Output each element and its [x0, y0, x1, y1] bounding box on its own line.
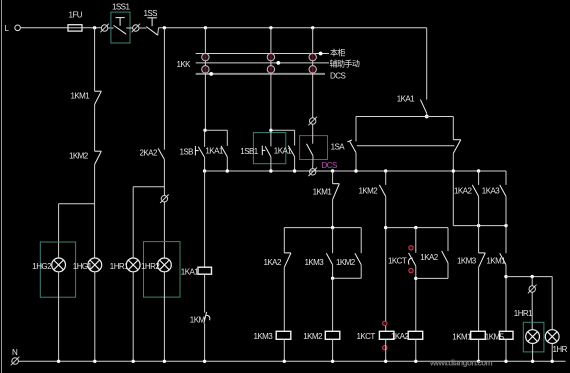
- contact 1KM3 (NO): [332, 228, 334, 254]
- wire 1HG1 to N bus: [94, 272, 96, 362]
- svg-text:1SA: 1SA: [331, 142, 346, 151]
- coil 1KA1: [198, 267, 212, 274]
- lamp 1HG1: [88, 258, 102, 272]
- wire bar A: [284, 227, 361, 229]
- wire terminal to 1HR2: [163, 202, 165, 258]
- contact 1KM2 (NO under bus): [385, 171, 387, 185]
- wire 1KK column1: [204, 28, 206, 131]
- wire to 1KM2 coil: [332, 278, 334, 331]
- wire 1KM to N bus: [204, 323, 206, 361]
- wire join bar: [416, 277, 448, 279]
- svg-text:1HR: 1HR: [553, 345, 568, 354]
- svg-text:1KM1: 1KM1: [452, 333, 472, 342]
- pushbutton 1SS (NO): [147, 17, 157, 19]
- contact 1KM2 (NO parallel): [360, 228, 362, 254]
- node col1 top: [203, 129, 206, 132]
- terminal X3: [161, 196, 167, 202]
- wire N bus: [18, 360, 565, 362]
- terminal X1: [101, 25, 107, 31]
- 1KK contact circles row2: [202, 66, 317, 73]
- node barC right: [504, 224, 507, 227]
- svg-text:1KK: 1KK: [177, 60, 192, 69]
- 1KK contact circles row1: [202, 53, 317, 60]
- svg-text:1KA1: 1KA1: [274, 147, 292, 156]
- wire 1HR to N bus: [551, 344, 553, 362]
- coil 1KCT: [379, 331, 394, 339]
- left scan border line: [1, 0, 3, 373]
- wire branch to 1HG2: [59, 203, 95, 205]
- node marker line3: [209, 72, 213, 76]
- svg-text:1KA1: 1KA1: [205, 147, 223, 156]
- svg-text:1HR1: 1HR1: [514, 309, 533, 318]
- terminal X4: [529, 286, 535, 292]
- wire bar C: [453, 225, 506, 227]
- wire 1SB1 branch top bar: [271, 129, 295, 131]
- svg-text:1KM2: 1KM2: [336, 258, 356, 267]
- red mark above 1KCT coil: [383, 321, 387, 325]
- fuse 1FU: [68, 25, 82, 31]
- lamp 1HR: [545, 330, 559, 344]
- node bus-1KA1 seal2: [293, 169, 296, 172]
- svg-text:1HR2: 1HR2: [141, 262, 160, 271]
- wire 1HG2 to N bus: [58, 272, 60, 362]
- wire lamp feed: [506, 276, 552, 278]
- node barB left: [384, 226, 387, 229]
- node bus-1SA: [354, 169, 357, 172]
- wire 1KK column3: [312, 28, 314, 118]
- node bus-1KM1nc: [331, 169, 334, 172]
- wire terminal to 1SS: [139, 27, 146, 29]
- wire 1KK column2: [270, 28, 272, 131]
- contact 1KM1 (NO lower right): [505, 226, 507, 254]
- contact 1KA2 (NO seal): [447, 228, 449, 251]
- lamp 1HR1 (teal frame): [523, 322, 544, 352]
- contact 1KM1 (NC mid): [332, 171, 334, 184]
- wire 1KM1 to 1KM2: [94, 105, 96, 152]
- red mark below 1KCT contact: [409, 268, 413, 272]
- svg-text:1KM2: 1KM2: [69, 151, 89, 160]
- node rail-1KK col2: [269, 26, 272, 29]
- node lamp feed: [504, 275, 507, 278]
- contact 1KA2 (NO right): [478, 171, 480, 185]
- node rail-1KK col3: [311, 26, 314, 29]
- svg-text:1HG1: 1HG1: [73, 262, 93, 271]
- node L terminal: [15, 25, 21, 31]
- terminal X2: [133, 25, 139, 31]
- svg-text:1KA3: 1KA3: [482, 187, 500, 196]
- terminal above DCS contact: [310, 118, 316, 124]
- svg-text:本柜: 本柜: [330, 48, 345, 58]
- wire column 2KA2 down from rail: [163, 28, 165, 150]
- svg-text:1KM1: 1KM1: [486, 257, 506, 266]
- node rail-2KA2 column: [163, 26, 166, 29]
- coil 1KM1: [471, 331, 486, 339]
- wire 1HR2 to N bus: [163, 272, 165, 362]
- node rail-1KK col1: [204, 26, 207, 29]
- node barA center: [331, 226, 334, 229]
- node bus-1SB1: [269, 169, 272, 172]
- wire 1SB branch top bar: [205, 129, 228, 131]
- node bus-1KM2: [384, 169, 387, 172]
- svg-text:辅助手动: 辅助手动: [330, 59, 360, 69]
- contact 1KA2 (NC): [283, 228, 285, 253]
- red mark above 1KCT contact: [409, 246, 413, 250]
- svg-text:1SB: 1SB: [180, 147, 194, 156]
- wire to terminal: [531, 277, 533, 286]
- svg-text:DCS: DCS: [322, 161, 337, 170]
- terminal on bus below DCS: [310, 169, 316, 175]
- node barB-1KCT: [414, 226, 417, 229]
- lamp 1HR1: [126, 258, 140, 272]
- node barC-1KM3: [477, 224, 480, 227]
- svg-text:2KA2: 2KA2: [140, 148, 158, 157]
- wire 1HR1 to N bus: [132, 272, 134, 362]
- wire fuse to terminal: [82, 27, 101, 29]
- contact 1KCT (delayed): [415, 228, 417, 253]
- lamp 1HG2 (teal frame): [40, 242, 75, 297]
- svg-text:1HG2: 1HG2: [32, 262, 52, 271]
- svg-text:DCS: DCS: [330, 72, 345, 81]
- node N terminal: [12, 358, 19, 365]
- svg-text:1KM3: 1KM3: [305, 258, 325, 267]
- wire column 1KM down from rail: [94, 28, 96, 91]
- wire to 1HR lamp: [551, 277, 553, 330]
- contact 2KA2 (NO): [158, 148, 164, 159]
- svg-text:1KA2: 1KA2: [420, 253, 438, 262]
- node bus-1KA2: [477, 169, 480, 172]
- svg-text:1KM5: 1KM5: [485, 333, 505, 342]
- node marker line2: [276, 61, 280, 65]
- node col2 top: [269, 129, 272, 132]
- svg-text:1KCT: 1KCT: [357, 332, 376, 341]
- contact 1KA1 (seal-in beside 1SB1): [294, 130, 296, 145]
- svg-text:1HR1: 1HR1: [110, 262, 129, 271]
- wire 1KM2 down to lamp branch: [94, 165, 96, 258]
- node bus-transfer: [452, 169, 455, 172]
- svg-text:1KM3: 1KM3: [254, 332, 274, 341]
- contact transfer (NC) right branch: [452, 117, 454, 140]
- pushbutton 1SS1 (NC, in teal frame): [111, 12, 130, 43]
- wire 1SS1 to terminal: [126, 27, 132, 29]
- wire coil to 1KM aux: [204, 274, 206, 312]
- svg-text:1KM1: 1KM1: [71, 91, 91, 100]
- wire bar B: [386, 227, 448, 229]
- contact 1KM1 (NC): [95, 90, 102, 92]
- contact 1KA3 (NO right): [505, 171, 507, 185]
- svg-text:1KA2: 1KA2: [454, 187, 472, 196]
- wire parallel join: [333, 277, 362, 279]
- wire horizontal 1KA1 node: [356, 116, 453, 118]
- node marker line1: [319, 52, 323, 56]
- wire L rail to fuse: [20, 27, 68, 29]
- svg-text:1KM: 1KM: [190, 316, 206, 325]
- svg-text:1SS: 1SS: [144, 9, 158, 18]
- teal frame around 1SB1: [253, 133, 285, 164]
- node 1KCT-1KA2 join: [414, 277, 417, 280]
- contact 1KA1 (top right, NO): [426, 28, 428, 100]
- node join: [331, 277, 334, 280]
- selector switch 1KK row line 2: [196, 62, 329, 64]
- coil 1KM5: [499, 331, 513, 339]
- contact 1KM3 (NC lower right): [478, 226, 480, 253]
- coil 1KA2: [408, 331, 423, 339]
- wire terminal to 1SS1: [108, 27, 114, 29]
- selector switch 1KK row line 3 (DCS): [196, 73, 325, 75]
- coil 1KM2: [325, 331, 340, 339]
- node bus-1KA1 seal: [226, 169, 229, 172]
- wire 1HR1 to N bus: [532, 344, 534, 362]
- wire branch to 1HR1: [133, 186, 164, 188]
- wire control bus (upper): [205, 170, 506, 172]
- svg-text:www.diangon.com: www.diangon.com: [429, 359, 493, 368]
- svg-text:1SB1: 1SB1: [240, 147, 258, 156]
- svg-text:1KM1: 1KM1: [313, 188, 333, 197]
- wire top rail: [159, 27, 427, 29]
- node rail-1KM column: [93, 26, 96, 29]
- svg-text:N: N: [12, 348, 18, 357]
- node 1KA1 bottom: [425, 115, 429, 119]
- svg-text:1SS1: 1SS1: [112, 3, 130, 12]
- contact 1KA1 (seal-in beside 1SB): [226, 130, 228, 146]
- svg-text:1KM2: 1KM2: [359, 187, 379, 196]
- wire terminal to 1HR1 lamp: [531, 292, 533, 330]
- svg-text:1KA2: 1KA2: [264, 258, 282, 267]
- wire bus down to 1KA1 coil: [204, 171, 206, 267]
- node lamp branch: [531, 275, 534, 278]
- wire 2KA2 to terminal: [163, 159, 165, 195]
- contact DCS remote (in magenta frame): [312, 124, 314, 144]
- pushbutton 1SB1 (NO): [270, 130, 272, 146]
- node Nbus junctions: [57, 360, 554, 363]
- coil 1KM3: [276, 331, 291, 339]
- pushbutton 1SB (NO): [204, 130, 206, 147]
- contact 1KM (aux with hook): [204, 312, 207, 323]
- svg-text:1KM2: 1KM2: [303, 332, 323, 341]
- wire 1SA output to transfer contact: [357, 145, 455, 147]
- svg-text:1FU: 1FU: [69, 11, 83, 20]
- contact 1KM2 (NC): [95, 150, 102, 152]
- svg-text:1KCT: 1KCT: [388, 257, 407, 266]
- selector switch 1KK row line 1: [196, 53, 329, 55]
- contact 1SA (selector aux): [355, 117, 357, 142]
- magenta frame DCS contact: [300, 136, 328, 160]
- svg-text:1KA1: 1KA1: [397, 95, 415, 104]
- svg-text:1KA2: 1KA2: [391, 332, 409, 341]
- lamp 1HR2 (teal frame): [144, 242, 181, 298]
- red mark below 1KCT coil: [383, 346, 387, 350]
- svg-text:1KA1: 1KA1: [181, 268, 199, 277]
- node bus-1SB: [203, 169, 206, 172]
- svg-text:1KM3: 1KM3: [457, 257, 477, 266]
